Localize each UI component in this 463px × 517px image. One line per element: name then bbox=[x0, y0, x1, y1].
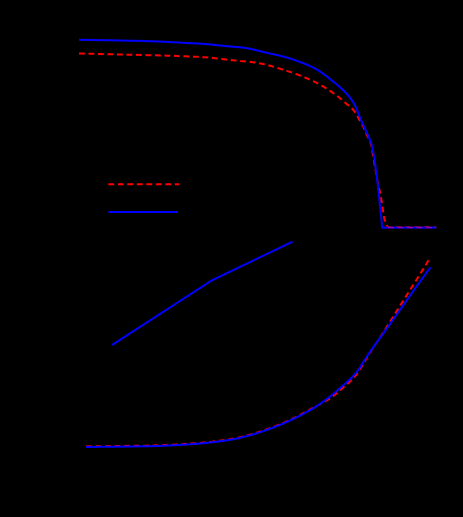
plateau purple dash overlay bbox=[388, 227, 436, 229]
legend red dashed sample bbox=[108, 183, 179, 185]
middle blue line bbox=[112, 242, 293, 345]
red dashed top curve bbox=[79, 54, 436, 228]
legend blue sample bbox=[109, 211, 179, 213]
bottom blue curve bbox=[86, 267, 431, 447]
blue solid top curve bbox=[79, 40, 436, 228]
bottom red dashed curve bbox=[86, 259, 430, 447]
